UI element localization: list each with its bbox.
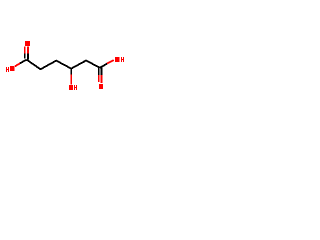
- hydroxyl O (right OH label, square): [115, 57, 120, 62]
- double bond C6=O (right), main line black upper: [101, 68, 103, 76]
- double bond C6=O (right), secondary line red lower: [98, 75, 100, 82]
- hydroxyl O (bottom OH label, square): [69, 85, 73, 90]
- hydroxyl O (left HO label, square): [10, 66, 15, 71]
- background: [0, 0, 130, 130]
- bond C6-O(H) red half: [107, 60, 114, 63]
- bond C6-O(H) black half: [100, 64, 107, 68]
- bond O(H)-C1 black half: [20, 60, 27, 64]
- bond C4-C5, bond C5-C6 (carbon chain polyline): [71, 61, 100, 69]
- bond C4-O(H) black upper: [71, 69, 72, 75]
- double bond C1=O (left), main line red upper: [27, 47, 29, 54]
- bond C1-C2, bond C2-C3, bond C3-C4 (carbon chain polyline): [27, 60, 72, 70]
- double bond C6=O (right), secondary line black upper: [98, 68, 100, 76]
- carbonyl oxygen O (right C=O, label square): [99, 84, 103, 89]
- bond C4-O(H) red lower: [71, 75, 72, 85]
- hydroxyl H (left HO label): [6, 67, 9, 72]
- double bond C1=O (left), secondary line black lower: [24, 54, 26, 59]
- hydroxyl H (bottom OH label): [74, 85, 77, 90]
- bond O(H)-C1 red half: [15, 63, 20, 66]
- hydroxyl H (right OH label): [121, 57, 124, 62]
- double bond C1=O (left), secondary line red upper: [24, 47, 26, 54]
- carbonyl oxygen O (left C=O, label square): [25, 41, 30, 46]
- double bond C6=O (right), main line red lower: [101, 75, 103, 83]
- double bond C1=O (left), main line black lower: [27, 54, 29, 60]
